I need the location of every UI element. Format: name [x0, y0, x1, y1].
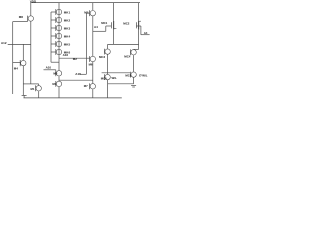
transistor MC4 — [124, 44, 138, 58]
svg-text:MC1: MC1 — [101, 21, 107, 25]
svg-text:MK2: MK2 — [64, 18, 71, 22]
wire A10 stub — [44, 69, 56, 71]
transistor MC3 — [99, 44, 110, 59]
svg-text:M7: M7 — [84, 84, 88, 88]
svg-text:M2: M2 — [73, 57, 77, 61]
ground rail bottom — [24, 97, 122, 99]
transistor MC1 — [101, 3, 116, 30]
svg-text:W/L: W/L — [112, 76, 118, 80]
svg-text:MC4: MC4 — [124, 55, 130, 59]
VDD rail — [31, 2, 140, 4]
svg-text:MK3: MK3 — [64, 26, 71, 30]
wire chain column — [58, 3, 60, 71]
wire MC5 source — [107, 80, 109, 98]
svg-text:A16: A16 — [63, 53, 69, 57]
wire M6 to M7 — [92, 62, 94, 84]
wire M9 gate — [80, 13, 89, 74]
svg-text:MK4: MK4 — [64, 34, 71, 38]
transistor M5 — [53, 70, 61, 76]
svg-text:MK5: MK5 — [64, 42, 71, 46]
wire node B horizontal — [23, 83, 38, 85]
svg-text:M1: M1 — [31, 87, 35, 91]
wire M9 drain — [92, 16, 94, 56]
wire M5 source — [58, 76, 60, 81]
wire A16 horizontal — [59, 57, 90, 59]
transistor M8 — [19, 3, 34, 22]
svg-text:E*W/L: E*W/L — [139, 74, 148, 78]
transistor MK2 — [51, 17, 70, 23]
transistor MK6 — [51, 49, 70, 55]
transistor MK1 — [51, 9, 70, 15]
wire MC6 source — [133, 78, 135, 84]
wire chain bracket — [50, 12, 52, 62]
wire MC4 to MC6 — [133, 55, 135, 71]
svg-text:MC2: MC2 — [123, 22, 129, 26]
ground right — [131, 85, 136, 87]
svg-text:A18: A18 — [75, 72, 81, 76]
svg-text:M5: M5 — [53, 72, 57, 76]
wire M8 drain — [30, 21, 32, 84]
transistor M9 — [84, 3, 95, 17]
transistor M1 — [31, 84, 42, 98]
svg-text:MK1: MK1 — [64, 10, 71, 14]
transistor M6 — [89, 56, 96, 66]
wire mirror gate bus — [102, 72, 131, 74]
transistor M3 — [52, 81, 61, 98]
wire W6 gate — [13, 62, 21, 64]
wire MC3 to gate bus — [107, 55, 109, 75]
svg-text:A12: A12 — [1, 41, 7, 45]
transistor MK5 — [51, 41, 70, 47]
wire bracket bottom — [51, 61, 59, 63]
transistor M4 — [14, 60, 26, 70]
transistor MK3 — [51, 25, 70, 31]
wire MC2 drain — [138, 30, 140, 45]
svg-text:M8: M8 — [19, 15, 23, 19]
wire right ground bus — [108, 83, 134, 85]
transistor MC2 — [123, 3, 141, 30]
ground left — [22, 95, 27, 98]
wire M8 gate — [13, 21, 28, 23]
transistor MC6 — [125, 72, 147, 78]
wire node tap — [59, 79, 93, 81]
svg-text:MC5: MC5 — [101, 76, 107, 80]
wire left A12 vertical — [12, 22, 14, 94]
wire M4 source — [22, 66, 24, 96]
svg-text:M6: M6 — [89, 62, 93, 66]
wire MC1 drain — [113, 30, 115, 45]
svg-text:M3: M3 — [52, 82, 56, 86]
svg-text:A10: A10 — [46, 66, 52, 70]
wire MC2 gate A4 — [141, 26, 150, 35]
wire A12 horizontal — [8, 43, 31, 45]
svg-text:MC3: MC3 — [99, 55, 105, 59]
transistor MK4 — [51, 33, 70, 39]
wire M4 drain — [22, 44, 24, 60]
svg-text:A4: A4 — [94, 25, 98, 29]
svg-text:A4: A4 — [144, 31, 148, 35]
svg-text:M4: M4 — [14, 66, 18, 70]
wire MC1 gate net — [93, 26, 106, 31]
svg-text:MC6: MC6 — [125, 73, 131, 77]
transistor MC5 — [101, 74, 117, 80]
transistor M7 — [84, 83, 96, 98]
wire tail bus — [108, 43, 139, 45]
